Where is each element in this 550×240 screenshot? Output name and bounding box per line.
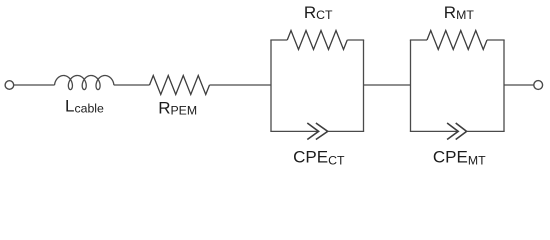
svg-text:RCT: RCT [304, 3, 333, 22]
resistor R_CT [287, 31, 347, 50]
wire (block2 left vertical) [410, 40, 412, 131]
wire [114, 84, 150, 86]
terminal T2 (right) [534, 81, 543, 90]
wire (block2 bottom right) [467, 130, 505, 132]
svg-text:RMT: RMT [444, 3, 475, 22]
wire (block1 top left) [270, 39, 287, 41]
svg-text:CPEMT: CPEMT [433, 147, 486, 167]
wire [504, 84, 534, 86]
inductor L_cable [55, 76, 114, 90]
wire (between blocks) [364, 84, 411, 86]
wire (block1 bottom left) [270, 130, 317, 132]
wire (block1 bottom right) [328, 130, 364, 132]
wire (block1 right vertical) [363, 40, 365, 131]
CPE_MT [447, 123, 467, 140]
wire (block1 left vertical) [270, 40, 272, 131]
wire (block2 top right) [487, 39, 505, 41]
resistor R_PEM [150, 76, 210, 95]
svg-text:RPEM: RPEM [158, 99, 197, 118]
svg-text:Lcable: Lcable [65, 97, 104, 116]
CPE_CT [307, 123, 327, 140]
terminal T1 (left) [5, 81, 14, 90]
resistor R_MT [427, 31, 487, 50]
wire (block2 top left) [410, 39, 427, 41]
svg-text:CPECT: CPECT [293, 147, 345, 167]
wire [210, 84, 272, 86]
wire (block2 bottom left) [410, 130, 457, 132]
wire [14, 84, 55, 86]
wire (block2 right vertical) [503, 40, 505, 131]
wire (block1 top right) [347, 39, 364, 41]
